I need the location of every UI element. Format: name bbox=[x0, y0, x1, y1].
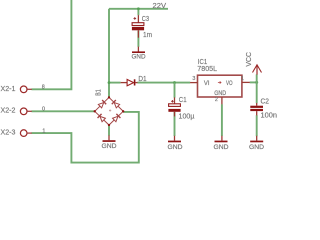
svg-text:C3: C3 bbox=[142, 14, 149, 23]
svg-text:C2: C2 bbox=[261, 97, 270, 106]
wire VCC node down to C2 bbox=[256, 82, 258, 103]
wire X2-3 loop below to bridge right corner bbox=[32, 112, 139, 163]
svg-text:VI: VI bbox=[204, 80, 210, 87]
svg-text:C1: C1 bbox=[179, 95, 187, 104]
wire C3 bottom to gnd bbox=[137, 31, 139, 47]
ground below IC1 bbox=[221, 136, 223, 141]
IC1 input pin (3) bbox=[190, 82, 197, 84]
ground below C3 bbox=[137, 47, 139, 52]
svg-text:GND: GND bbox=[249, 144, 264, 151]
svg-text:GND: GND bbox=[168, 144, 183, 151]
regulator IC1 7805L box bbox=[198, 75, 242, 97]
wire net 22V top rail bbox=[109, 8, 168, 10]
svg-text:B1: B1 bbox=[95, 89, 102, 96]
connector X2-2 bbox=[20, 108, 27, 115]
diode B1 bottom-right (anode bottom, cathode right) bbox=[113, 116, 118, 121]
wire C1 minus plate down to gnd bbox=[174, 112, 176, 136]
svg-text:X2-1: X2-1 bbox=[1, 84, 16, 93]
connector X2-3 bbox=[20, 130, 27, 137]
diode D1 bbox=[121, 82, 128, 84]
connector X2-1 bbox=[20, 86, 27, 93]
wire C2 bottom to gnd bbox=[256, 115, 258, 136]
wire bridge bottom corner to gnd bbox=[108, 125, 110, 136]
node dots at bridge corners bbox=[94, 96, 125, 126]
svg-text:0: 0 bbox=[42, 107, 45, 113]
arrow inside IC1 bbox=[218, 81, 221, 83]
svg-text:1: 1 bbox=[42, 129, 45, 135]
capacitor C3 (polarized) bbox=[137, 15, 139, 23]
wire rail left end down to bridge top corner bbox=[108, 9, 110, 97]
diode B1 top-right (anode right, cathode top) bbox=[114, 103, 119, 108]
svg-text:X2-2: X2-2 bbox=[1, 106, 16, 115]
svg-text:GND: GND bbox=[102, 143, 117, 150]
junction at D1 branch bbox=[108, 81, 111, 84]
svg-text:D1: D1 bbox=[138, 74, 146, 83]
svg-text:VCC: VCC bbox=[246, 52, 253, 67]
svg-text:GND: GND bbox=[214, 144, 229, 151]
svg-text:100µ: 100µ bbox=[179, 112, 196, 121]
wire VCC node up to supply arrow bbox=[256, 74, 258, 82]
junction C3 tap on rail bbox=[137, 7, 140, 10]
wire D1 cathode to IC1 input bbox=[137, 82, 190, 84]
diode B1 bottom-left (anode bottom, cathode left) bbox=[100, 116, 105, 121]
svg-text:8: 8 bbox=[42, 84, 45, 90]
wire X2-1 right then up to top edge bbox=[32, 0, 72, 89]
junction C1 tap bbox=[173, 81, 176, 84]
wire down to C1 plus plate bbox=[174, 83, 176, 98]
IC1 output pin (1) bbox=[242, 81, 250, 83]
ground below C2 bbox=[256, 136, 258, 141]
wire branch toward D1 anode bbox=[109, 82, 121, 84]
ground below bridge bbox=[108, 135, 110, 140]
bridge origin cross bbox=[109, 109, 111, 111]
svg-text:2: 2 bbox=[215, 97, 218, 103]
svg-text:1m: 1m bbox=[143, 30, 152, 39]
svg-text:1: 1 bbox=[241, 76, 244, 82]
svg-text:22V: 22V bbox=[153, 1, 167, 10]
wire IC1 output to VCC node bbox=[250, 81, 257, 83]
ground below C1 bbox=[174, 136, 176, 141]
svg-text:GND: GND bbox=[132, 54, 146, 61]
junction VCC node bbox=[255, 81, 258, 84]
capacitor C2 bbox=[256, 103, 258, 106]
wire rail tap down to C3 bbox=[137, 9, 139, 15]
wire IC1 gnd pin down to gnd bbox=[221, 104, 223, 136]
svg-text:X2-3: X2-3 bbox=[1, 128, 16, 137]
svg-text:7805L: 7805L bbox=[197, 64, 217, 73]
svg-text:100n: 100n bbox=[261, 111, 278, 120]
diode B1 top-left (anode left, cathode top) bbox=[98, 103, 103, 108]
capacitor C1 (polarized) bbox=[174, 97, 176, 103]
svg-text:VO: VO bbox=[226, 80, 233, 87]
wire X2-2 to bridge left corner bbox=[32, 110, 95, 112]
supply symbol VCC bbox=[256, 65, 258, 75]
svg-text:3: 3 bbox=[192, 76, 195, 82]
bridge rectifier B1 diamond bbox=[95, 97, 124, 125]
IC1 gnd pin (2) bbox=[221, 97, 223, 104]
